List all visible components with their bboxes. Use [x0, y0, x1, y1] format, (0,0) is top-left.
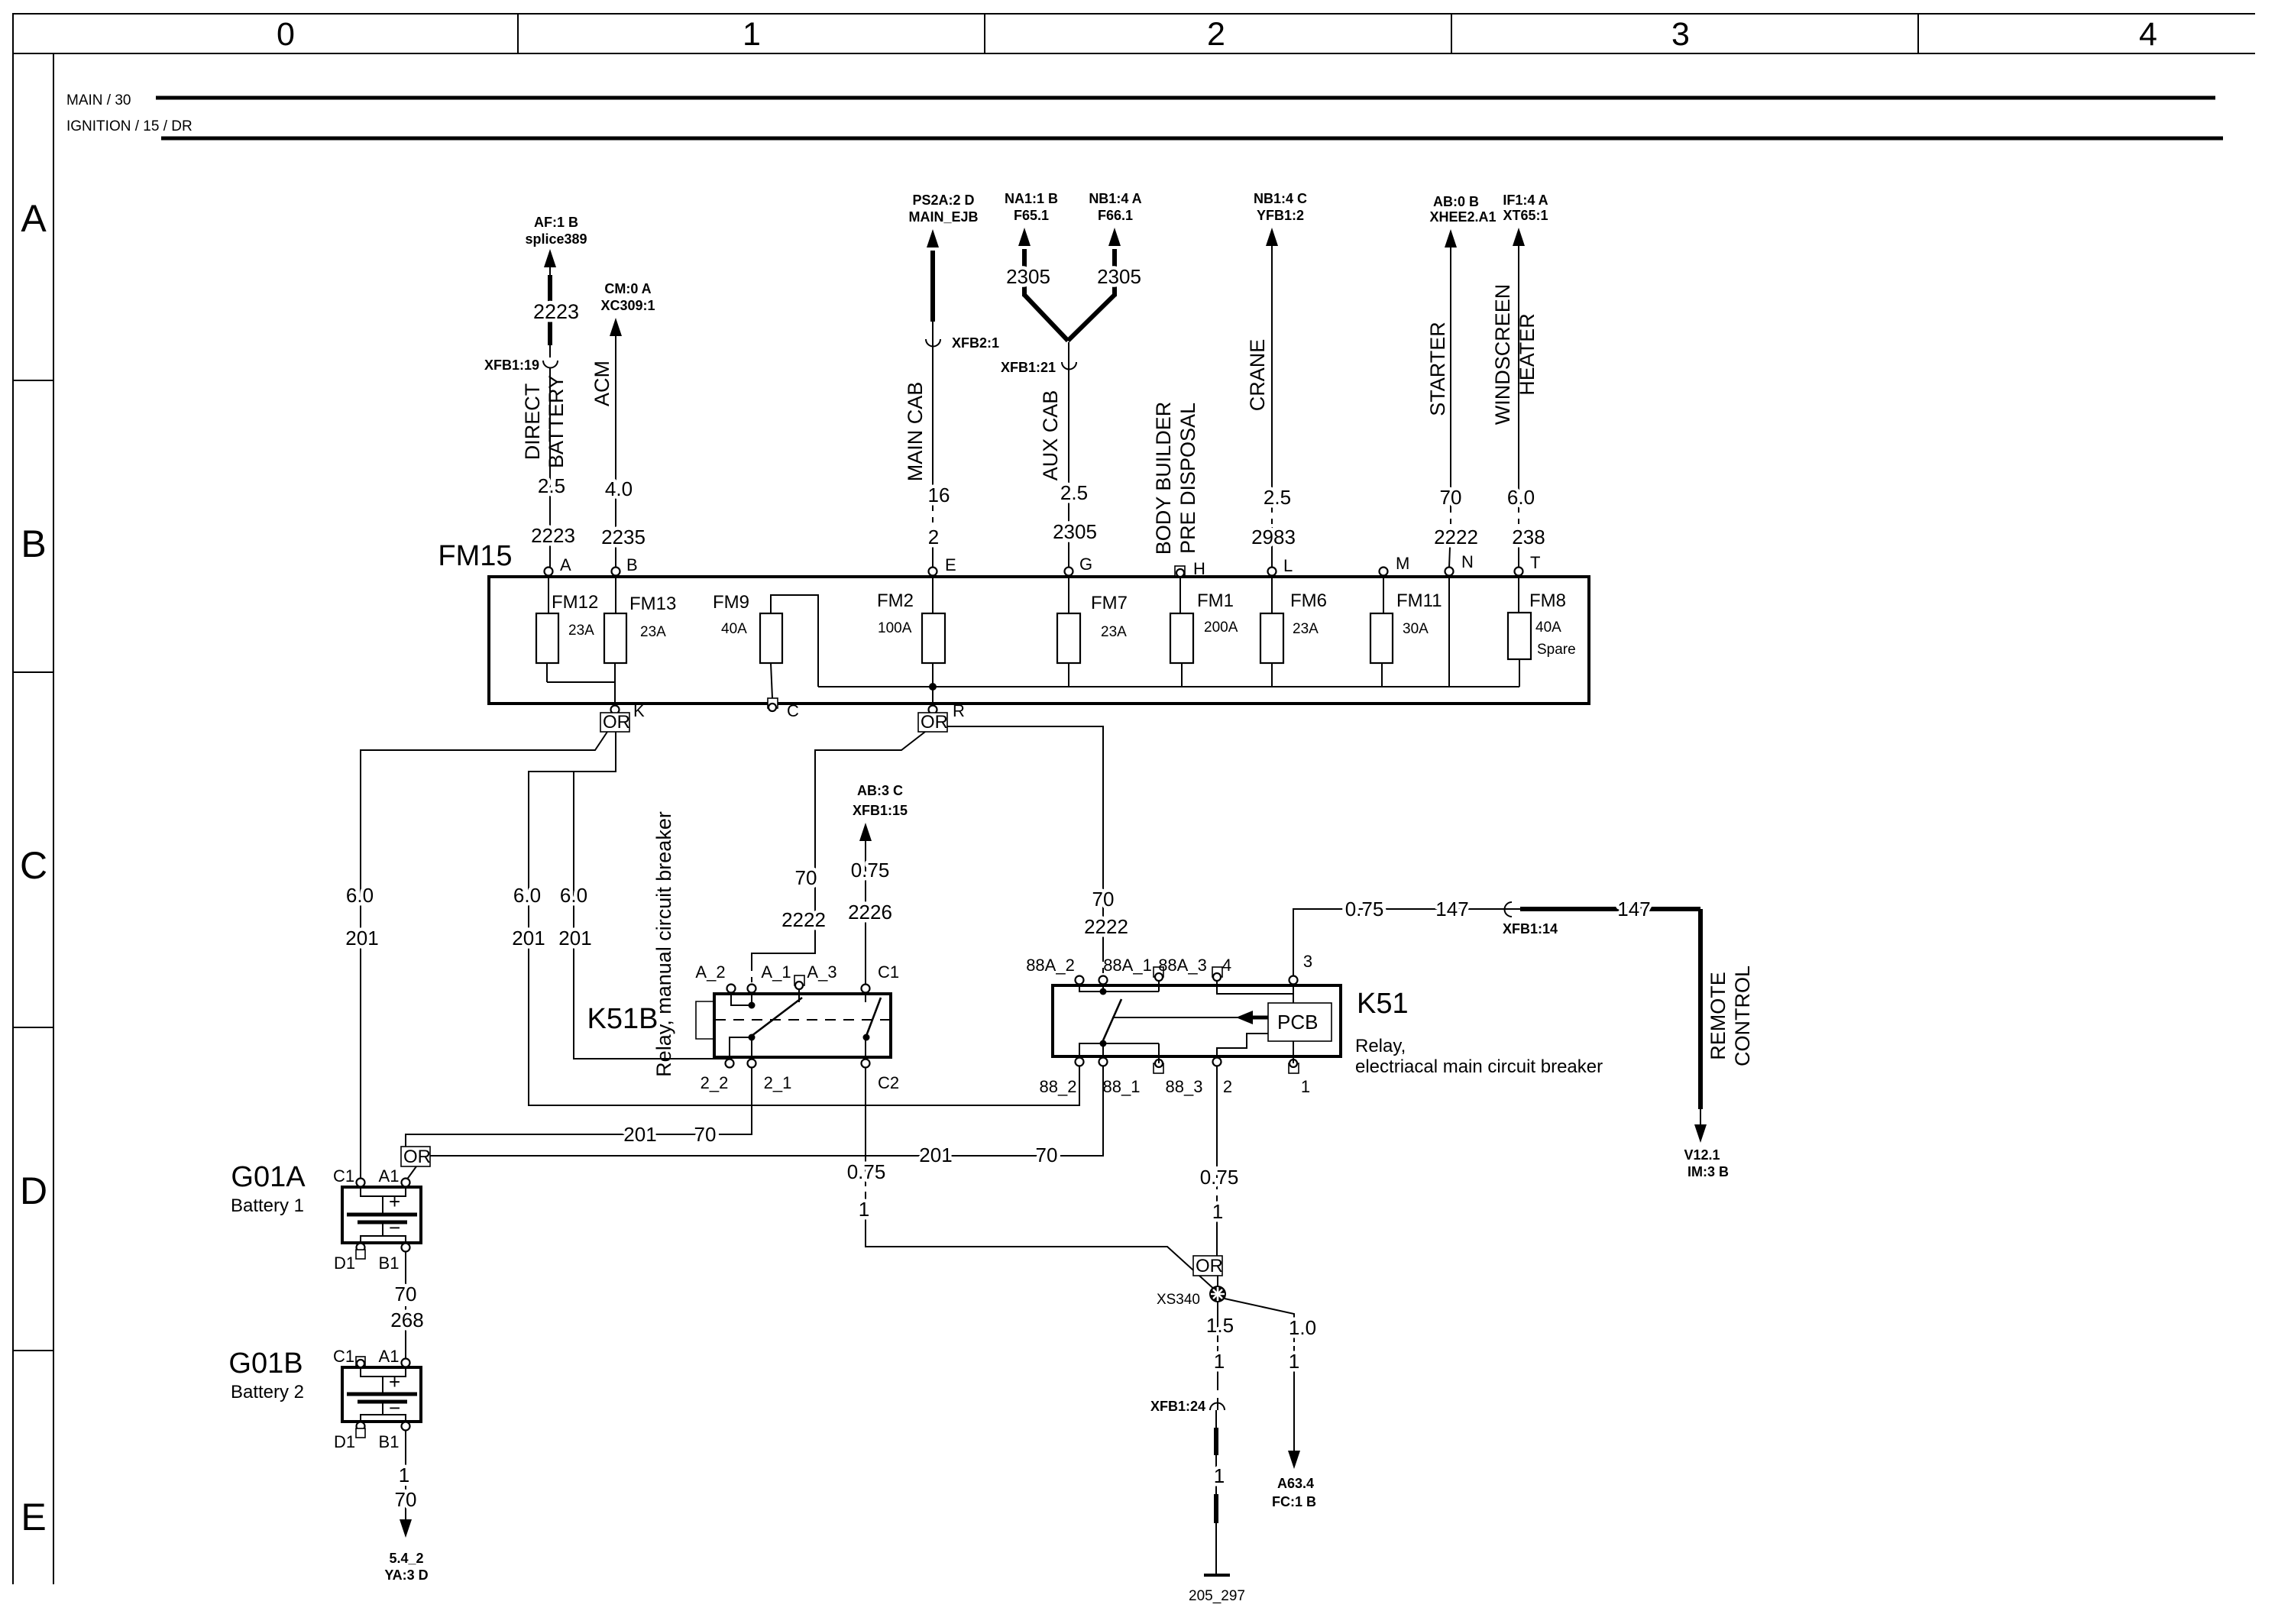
arrow up to MAIN_EJB: [927, 229, 939, 247]
svg-text:MAIN / 30: MAIN / 30: [66, 92, 131, 108]
svg-text:K51: K51: [1357, 988, 1409, 1020]
K51 internal 88A_3 link: [1103, 991, 1159, 992]
wire G01B B1 down to YA:3 D: [405, 1430, 406, 1464]
K51B internal A_2 jog: [731, 993, 752, 1005]
K51 terminal 4: [1212, 967, 1222, 977]
terminal A: [545, 568, 553, 576]
svg-text:Relay, manual circuit breaker: Relay, manual circuit breaker: [652, 811, 675, 1077]
splice XS340: [1209, 1286, 1226, 1302]
svg-text:FM8: FM8: [1529, 590, 1566, 611]
svg-text:IM:3 B: IM:3 B: [1687, 1164, 1729, 1179]
svg-text:2305: 2305: [1053, 520, 1097, 543]
OR gate at R: [918, 713, 947, 732]
K51 PCB control arrow: [1112, 1017, 1241, 1018]
svg-text:5.4_2: 5.4_2: [389, 1551, 423, 1566]
svg-text:HEATER: HEATER: [1516, 313, 1539, 396]
wire XFB1:19 to terminal A: [549, 368, 551, 568]
svg-text:2226: 2226: [848, 901, 892, 924]
svg-text:2222: 2222: [781, 908, 826, 931]
K51B junction dot A: [749, 1002, 756, 1009]
svg-text:1: 1: [399, 1464, 409, 1487]
svg-text:XFB1:19: XFB1:19: [484, 357, 539, 373]
internal wire FM2 to terminal R: [932, 663, 934, 710]
wire OR K down branch: [529, 732, 1079, 1105]
K51B internal C1 stub: [865, 993, 866, 1002]
svg-text:K51B: K51B: [587, 1003, 658, 1035]
fuse FM13: [615, 576, 616, 613]
svg-text:201: 201: [345, 927, 378, 949]
thick harness wire 2223: [548, 275, 552, 345]
svg-text:C2: C2: [878, 1073, 899, 1092]
svg-text:A_2: A_2: [695, 962, 725, 982]
wire K51 3 to remote control: [1293, 909, 1531, 975]
K51B linkage dashed line: [715, 1019, 890, 1021]
svg-text:N: N: [1461, 552, 1474, 571]
G01B terminal A1: [402, 1359, 410, 1367]
svg-text:−: −: [389, 1396, 400, 1419]
svg-text:100A: 100A: [878, 620, 912, 636]
fuse FM9: [760, 613, 782, 663]
K51 terminal 88A_2: [1076, 976, 1084, 985]
svg-text:40A: 40A: [1535, 620, 1561, 636]
svg-text:FM2: FM2: [877, 590, 914, 611]
arrow up to XFB1:15: [859, 823, 872, 841]
arrow down to V12.1: [1694, 1124, 1707, 1143]
svg-text:16: 16: [928, 484, 950, 506]
K51B internal C2 stub: [865, 1037, 866, 1059]
wire K51 2 to OR XS340: [1216, 1066, 1218, 1161]
svg-text:205_297: 205_297: [1189, 1588, 1245, 1604]
fuse FM11: [1383, 576, 1384, 613]
arrow up to XHEE2.A1: [1445, 229, 1457, 247]
svg-text:B1: B1: [379, 1432, 400, 1451]
header tick 2/3: [1451, 14, 1452, 53]
svg-text:FM9: FM9: [713, 592, 749, 613]
svg-text:1: 1: [1301, 1077, 1310, 1096]
svg-text:6.0: 6.0: [560, 884, 587, 907]
svg-text:CONTROL: CONTROL: [1731, 966, 1754, 1066]
svg-text:CM:0 A: CM:0 A: [604, 281, 651, 296]
svg-text:FM13: FM13: [629, 594, 676, 614]
svg-text:BODY BUILDER: BODY BUILDER: [1152, 402, 1175, 555]
svg-text:1.5: 1.5: [1206, 1314, 1234, 1337]
svg-text:BATTERY: BATTERY: [545, 375, 568, 468]
svg-text:70: 70: [395, 1283, 417, 1305]
svg-text:STARTER: STARTER: [1426, 322, 1449, 416]
K51 internal 88_3 link: [1103, 1043, 1159, 1044]
svg-text:201: 201: [558, 927, 591, 949]
internal stub FM11: [1381, 663, 1383, 687]
svg-text:IGNITION / 15 / DR: IGNITION / 15 / DR: [66, 118, 193, 134]
OR gate at battery G01A: [401, 1147, 430, 1166]
row separator D/E: [13, 1350, 53, 1351]
svg-text:H: H: [1193, 559, 1205, 578]
svg-text:B1: B1: [379, 1254, 400, 1273]
svg-text:88_3: 88_3: [1166, 1077, 1203, 1096]
svg-text:E: E: [945, 555, 956, 574]
svg-text:200A: 200A: [1204, 620, 1238, 636]
svg-text:88_1: 88_1: [1103, 1077, 1141, 1096]
terminal T: [1515, 568, 1523, 576]
svg-text:REMOTE: REMOTE: [1707, 972, 1730, 1060]
svg-text:A1: A1: [379, 1166, 400, 1186]
svg-text:A_1: A_1: [761, 962, 791, 982]
terminal C: [768, 698, 778, 708]
svg-text:3: 3: [1303, 952, 1312, 971]
OR gate at XS340: [1193, 1256, 1222, 1276]
svg-text:V12.1: V12.1: [1684, 1147, 1720, 1163]
wire XFB2:1 to terminal E: [932, 322, 934, 506]
svg-text:2.5: 2.5: [1264, 486, 1291, 509]
K51 internal wire PCB to 1: [1293, 1041, 1294, 1063]
G01B terminal B1: [402, 1422, 410, 1431]
svg-text:NB1:4 C: NB1:4 C: [1254, 191, 1307, 206]
K51 terminal 3: [1289, 976, 1298, 985]
internal right bus: [818, 686, 1519, 687]
svg-text:MAIN_EJB: MAIN_EJB: [908, 209, 978, 225]
svg-text:2235: 2235: [601, 526, 646, 548]
terminal L: [1268, 568, 1277, 576]
svg-text:23A: 23A: [1101, 624, 1127, 640]
svg-text:YFB1:2: YFB1:2: [1257, 208, 1304, 223]
fuse box FM15: [489, 577, 1589, 704]
svg-text:23A: 23A: [640, 624, 666, 640]
K51B junction dot 2: [749, 1034, 756, 1041]
battery G01A: [342, 1187, 421, 1243]
wire XFB1:15 to K51B C1: [865, 839, 866, 984]
svg-text:K: K: [633, 701, 645, 720]
svg-text:30A: 30A: [1403, 621, 1429, 637]
arrow down to FC:1 B: [1288, 1451, 1300, 1469]
svg-text:XS340: XS340: [1157, 1292, 1200, 1308]
svg-text:2223: 2223: [533, 300, 579, 323]
border frame header bottom line: [13, 53, 2255, 54]
svg-text:23A: 23A: [568, 623, 594, 639]
G01A terminal A1: [402, 1179, 410, 1187]
K51 terminal 88_3: [1154, 1063, 1163, 1073]
internal wire FM13 to terminal K: [614, 663, 616, 709]
K51B manual actuator bracket: [696, 1001, 714, 1039]
svg-text:splice389: splice389: [525, 231, 587, 247]
terminal K: [611, 706, 620, 714]
internal wire N to bus: [1448, 576, 1450, 687]
thick wire 2305 left: [1022, 249, 1027, 296]
svg-text:XT65:1: XT65:1: [1503, 208, 1548, 223]
row separator B/C: [13, 671, 53, 673]
svg-text:201: 201: [623, 1123, 656, 1146]
K51 internal 88_1 stub: [1102, 1043, 1104, 1058]
svg-text:AF:1 B: AF:1 B: [534, 215, 578, 230]
svg-text:201: 201: [919, 1144, 952, 1166]
K51B terminal C2: [862, 1059, 870, 1068]
wire K51B 2_1 to OR G01A: [406, 1067, 752, 1147]
K51B internal 2_2 jog: [730, 1037, 752, 1059]
K51B internal A_3 stub: [798, 989, 800, 1002]
svg-text:1: 1: [743, 16, 761, 53]
relay K51B: [714, 994, 891, 1057]
svg-text:0.75: 0.75: [1200, 1166, 1239, 1189]
wire OR R to K51 88A_1: [947, 726, 1103, 956]
svg-text:OR: OR: [603, 712, 630, 733]
svg-text:R: R: [953, 701, 965, 720]
svg-text:4: 4: [1222, 956, 1231, 975]
K51 internal 88A_1 stub: [1102, 985, 1104, 995]
G01B terminal D1: [357, 1422, 365, 1431]
K51 terminal 88A_1: [1099, 976, 1108, 985]
K51 internal wire PCB to 2: [1217, 1034, 1268, 1058]
svg-text:A_3: A_3: [807, 962, 836, 982]
wire OR K to battery C1 branch: [361, 732, 607, 1179]
K51 terminal 88_2: [1076, 1058, 1084, 1066]
svg-text:70: 70: [1092, 888, 1115, 911]
svg-text:A1: A1: [379, 1347, 400, 1366]
svg-text:G: G: [1079, 555, 1092, 574]
svg-text:1: 1: [1212, 1200, 1223, 1223]
wire splice389 to XFB1:19: [549, 266, 551, 357]
fuse FM7: [1068, 576, 1069, 613]
wire XS340 down to ground: [1217, 1302, 1218, 1337]
wire XS340 to A63.4 branch: [1225, 1299, 1294, 1337]
svg-text:PS2A:2 D: PS2A:2 D: [912, 192, 974, 208]
svg-text:G01B: G01B: [228, 1347, 303, 1380]
thick harness segment: [1214, 1428, 1218, 1455]
K51 terminal 1: [1289, 1063, 1299, 1073]
svg-text:2305: 2305: [1006, 265, 1050, 288]
junction dot FM2/bus: [929, 683, 937, 691]
terminal H: [1175, 566, 1185, 576]
svg-text:2983: 2983: [1251, 526, 1296, 548]
svg-text:FM12: FM12: [552, 592, 598, 613]
svg-text:CRANE: CRANE: [1246, 339, 1269, 412]
border frame letter column vertical: [53, 53, 54, 1584]
svg-text:2.5: 2.5: [1060, 481, 1088, 504]
svg-text:238: 238: [1512, 526, 1545, 548]
arrow up to splice389: [544, 249, 556, 267]
svg-text:NA1:1 B: NA1:1 B: [1005, 191, 1058, 206]
svg-text:G01A: G01A: [231, 1161, 306, 1193]
svg-text:D1: D1: [334, 1432, 355, 1451]
svg-text:XFB1:21: XFB1:21: [1001, 360, 1056, 375]
K51B terminal A_3: [794, 975, 804, 985]
svg-text:2223: 2223: [531, 524, 575, 547]
svg-text:XC309:1: XC309:1: [600, 298, 655, 313]
G01B terminal C1: [356, 1357, 365, 1366]
G01A terminal B1: [402, 1244, 410, 1252]
thick harness wire main cab: [930, 251, 935, 322]
svg-text:4.0: 4.0: [605, 477, 633, 500]
thick wire 147 horizontal: [1520, 907, 1700, 911]
svg-text:FM6: FM6: [1290, 590, 1327, 611]
svg-text:147: 147: [1617, 898, 1650, 920]
svg-text:6.0: 6.0: [513, 884, 541, 907]
svg-text:F66.1: F66.1: [1098, 208, 1133, 223]
K51B switch blade right: [866, 998, 881, 1036]
K51 junction dot 88: [1100, 1040, 1107, 1047]
svg-text:40A: 40A: [721, 621, 747, 637]
svg-text:Battery 1: Battery 1: [231, 1195, 304, 1216]
wire OR G01A to K51 88_1: [430, 1066, 1103, 1156]
K51 internal 88A_2 jog: [1079, 985, 1103, 992]
svg-text:PRE DISPOSAL: PRE DISPOSAL: [1176, 403, 1199, 554]
OR gate at K: [600, 713, 629, 732]
svg-text:AB:0 B: AB:0 B: [1433, 194, 1479, 209]
border frame outer top line: [13, 13, 2255, 15]
svg-text:1.0: 1.0: [1289, 1316, 1316, 1339]
K51B internal A_1 stub: [751, 993, 752, 1008]
fuse FM6: [1271, 576, 1273, 613]
svg-text:FM15: FM15: [438, 540, 512, 572]
K51 terminal 2: [1213, 1058, 1222, 1066]
thick wire 2305 right: [1112, 249, 1117, 296]
thick harness segment: [1214, 1494, 1218, 1523]
wire OR R to K51B A_1: [752, 732, 925, 966]
K51B terminal 2_1: [748, 1059, 756, 1068]
svg-text:YA:3 D: YA:3 D: [384, 1567, 428, 1583]
svg-text:88A_3: 88A_3: [1158, 956, 1207, 975]
row separator A/B: [13, 380, 53, 381]
svg-text:6.0: 6.0: [346, 884, 374, 907]
wire G01A B1 to G01B A1: [405, 1251, 406, 1283]
arrow up to XT65:1: [1513, 228, 1525, 246]
wire OR G01A to A1: [406, 1166, 416, 1180]
svg-text:XFB1:24: XFB1:24: [1150, 1399, 1205, 1414]
thick V junction left leg: [1024, 295, 1068, 341]
svg-text:XFB1:14: XFB1:14: [1503, 921, 1558, 937]
fuse FM8: [1518, 576, 1519, 613]
arrow up to F65.1: [1018, 228, 1031, 246]
K51B internal 2_1 stub: [751, 1037, 752, 1059]
svg-text:70: 70: [395, 1488, 417, 1511]
internal left bus FM12-FM13: [546, 663, 548, 682]
relay K51: [1053, 985, 1341, 1056]
svg-text:A63.4: A63.4: [1277, 1476, 1314, 1491]
arrow up to F66.1: [1108, 228, 1121, 246]
connector XFB1:14: [1505, 902, 1513, 917]
svg-text:DIRECT: DIRECT: [521, 383, 544, 461]
terminal N: [1445, 568, 1454, 576]
svg-text:AUX CAB: AUX CAB: [1039, 390, 1062, 481]
K51 junction dot 88A: [1100, 988, 1107, 995]
svg-text:+: +: [389, 1190, 400, 1213]
K51B terminal A_2: [727, 985, 736, 993]
header tick 3/4: [1917, 14, 1919, 53]
internal stub FM8: [1519, 659, 1520, 687]
wire XC309 to terminal B: [615, 335, 616, 568]
K51 switch blade: [1103, 999, 1121, 1040]
svg-text:2222: 2222: [1434, 526, 1478, 548]
svg-text:0: 0: [277, 16, 295, 53]
K51 terminal 88_1: [1099, 1058, 1108, 1066]
arrow up to YFB1:2: [1266, 228, 1278, 246]
svg-text:M: M: [1396, 554, 1409, 573]
K51B switch blade left: [752, 998, 802, 1036]
svg-text:Relay,: Relay,: [1355, 1036, 1406, 1056]
svg-text:70: 70: [795, 866, 817, 889]
svg-text:A: A: [560, 555, 571, 574]
svg-text:2: 2: [928, 526, 939, 548]
svg-text:B: B: [21, 522, 46, 565]
internal FM9 loop to bus: [771, 595, 818, 687]
row separator C/D: [13, 1027, 53, 1028]
svg-text:147: 147: [1435, 898, 1468, 920]
svg-text:PCB: PCB: [1277, 1011, 1318, 1034]
G01A terminal C1: [357, 1179, 365, 1187]
svg-text:E: E: [21, 1496, 46, 1538]
svg-text:70: 70: [694, 1123, 717, 1146]
K51 internal 4 jog to 3: [1217, 981, 1293, 994]
svg-text:IF1:4 A: IF1:4 A: [1503, 192, 1548, 208]
svg-text:23A: 23A: [1293, 621, 1319, 637]
arrow down to YA:3 D: [400, 1519, 412, 1538]
svg-text:201: 201: [512, 927, 545, 949]
wire K51B C2 to OR XS340: [865, 1067, 866, 1158]
G01B internal plates: [361, 1367, 406, 1377]
K51B terminal C1: [862, 985, 870, 993]
terminal B: [612, 568, 620, 576]
svg-text:F65.1: F65.1: [1014, 208, 1049, 223]
fuse FM2: [932, 576, 934, 613]
svg-text:2.5: 2.5: [538, 474, 565, 497]
svg-text:70: 70: [1440, 486, 1462, 509]
svg-text:0.75: 0.75: [847, 1160, 886, 1183]
K51B junction dot C: [863, 1034, 870, 1041]
terminal E: [929, 568, 937, 576]
svg-text:88A_1: 88A_1: [1103, 956, 1152, 975]
svg-text:A: A: [21, 197, 47, 240]
svg-text:0.75: 0.75: [851, 859, 890, 882]
svg-text:C1: C1: [333, 1347, 354, 1366]
G01A terminal D1: [357, 1244, 365, 1252]
svg-text:88_2: 88_2: [1040, 1077, 1077, 1096]
border frame left outer vertical: [12, 13, 14, 1584]
svg-text:2: 2: [1223, 1077, 1232, 1096]
svg-text:L: L: [1283, 556, 1293, 575]
svg-text:Battery 2: Battery 2: [231, 1382, 304, 1402]
svg-text:XFB2:1: XFB2:1: [952, 335, 999, 351]
svg-text:C1: C1: [878, 962, 899, 982]
svg-text:OR: OR: [1196, 1256, 1223, 1276]
svg-text:ACM: ACM: [591, 361, 613, 406]
wire branch to K51B 2_2: [574, 772, 730, 1066]
svg-text:OR: OR: [921, 712, 948, 733]
K51B terminal 2_2: [726, 1059, 734, 1068]
svg-text:C: C: [787, 701, 799, 720]
wire OR to splice XS340: [1217, 1276, 1218, 1286]
internal stub FM1: [1181, 663, 1183, 687]
fuse FM12: [548, 576, 549, 613]
svg-text:FM11: FM11: [1396, 590, 1442, 611]
K51 terminal 88A_3: [1154, 967, 1163, 977]
svg-text:C1: C1: [333, 1166, 354, 1186]
svg-text:AB:3 C: AB:3 C: [857, 783, 903, 798]
svg-text:B: B: [626, 555, 638, 574]
internal stub FM7: [1068, 663, 1069, 687]
svg-text:4: 4: [2139, 16, 2157, 53]
net wire MAIN/30: [156, 96, 2215, 100]
svg-text:XFB1:15: XFB1:15: [853, 803, 908, 818]
svg-text:Spare: Spare: [1537, 642, 1576, 658]
K51 internal 88_3 stub: [1158, 1043, 1160, 1063]
K51 internal 88_2 jog: [1079, 1043, 1103, 1058]
svg-text:1: 1: [1289, 1350, 1299, 1373]
K51 PCB box: [1268, 1003, 1332, 1041]
svg-text:D1: D1: [334, 1254, 355, 1273]
svg-text:6.0: 6.0: [1507, 486, 1535, 509]
G01A internal plates: [361, 1187, 406, 1196]
wire XHEE2.A1 to terminal N: [1450, 246, 1451, 507]
svg-text:C: C: [20, 844, 47, 887]
svg-text:MAIN CAB: MAIN CAB: [904, 382, 927, 482]
